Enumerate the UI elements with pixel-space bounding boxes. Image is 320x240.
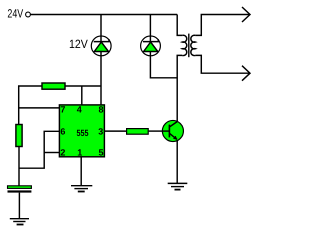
- wire 555 pin 6 row: [19, 131, 60, 168]
- wire zener D2 bottom lead: [150, 56, 177, 78]
- transformer T1 secondary winding: [191, 35, 196, 55]
- wire R3 to transistor base: [149, 130, 163, 132]
- wire zener D1 top lead: [100, 15, 102, 37]
- wire zener D1 bottom lead to 555 pin 8: [100, 56, 102, 105]
- op-amp 555 timer U1 body: [59, 105, 104, 157]
- resistor R2: [16, 125, 22, 147]
- transformer T1 primary winding: [182, 35, 187, 55]
- terminal output arrow top: [242, 7, 250, 22]
- ground G2: [71, 186, 92, 192]
- terminal 24V input: [26, 12, 31, 17]
- wire 555 pin 4 drop: [81, 86, 83, 105]
- wire 555 pin 7 row: [19, 107, 60, 109]
- transistor Q1 symbol: [163, 122, 178, 140]
- wire zener D2 top lead: [149, 15, 151, 37]
- svg-text:1: 1: [77, 148, 82, 158]
- transistor Q1 body: [162, 120, 183, 141]
- wire 555 pin 1 to ground: [80, 157, 82, 186]
- wire capacitor to ground: [18, 193, 20, 219]
- ground G3: [168, 183, 188, 189]
- wire transformer secondary bottom lead: [195, 55, 249, 73]
- capacitor C1 bottom plate: [8, 190, 32, 192]
- svg-text:2: 2: [60, 148, 65, 158]
- svg-text:24V: 24V: [7, 7, 23, 21]
- resistor R1: [42, 83, 65, 89]
- svg-text:5: 5: [98, 148, 103, 158]
- svg-text:3: 3: [98, 126, 103, 136]
- capacitor C1 top plate: [8, 186, 32, 189]
- wire transformer primary top lead: [177, 15, 182, 36]
- terminal output arrow bottom: [242, 66, 250, 81]
- svg-text:12V: 12V: [69, 37, 88, 51]
- ground G1: [10, 219, 29, 225]
- wire transformer secondary top lead: [195, 15, 249, 36]
- svg-text:6: 6: [60, 126, 65, 136]
- resistor R3 base resistor: [127, 129, 149, 135]
- transformer T1 core: [188, 34, 190, 58]
- wire transistor emitter to ground: [176, 141, 178, 183]
- zener D2 flyback clamp: [141, 36, 161, 56]
- wire R2 bottom to capacitor: [18, 147, 20, 186]
- wire R1 right to V+ junction: [65, 85, 101, 87]
- wire 24V rail top: [31, 14, 178, 16]
- wire left node from R1 to R2: [19, 86, 42, 125]
- svg-text:555: 555: [77, 128, 89, 138]
- wire 555 pin 2 row: [44, 152, 59, 154]
- svg-text:7: 7: [60, 104, 65, 114]
- wire 555 pin 3 output row: [105, 130, 127, 132]
- wire transformer primary bottom lead to collector node: [177, 55, 182, 121]
- zener D1 12V: [91, 36, 111, 56]
- svg-text:8: 8: [98, 104, 103, 114]
- svg-text:4: 4: [77, 104, 82, 114]
